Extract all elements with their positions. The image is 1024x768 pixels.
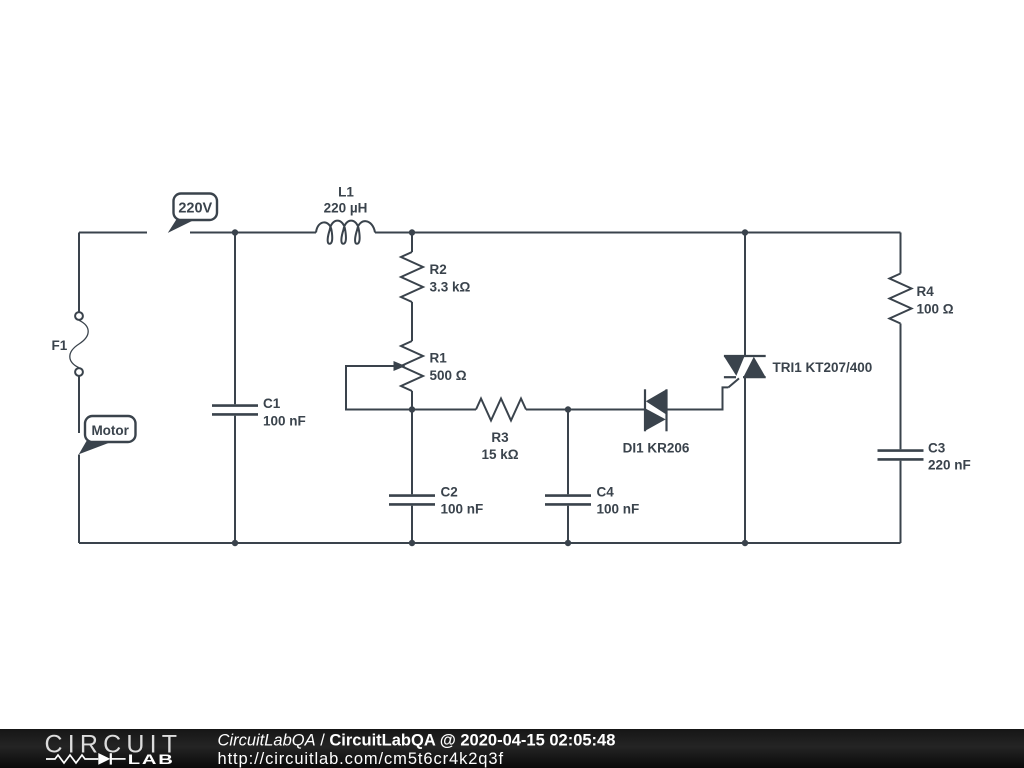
svg-text:Motor: Motor [91,423,129,438]
svg-text:CircuitLabQA / CircuitLabQA @: CircuitLabQA / CircuitLabQA @ 2020-04-15… [218,732,616,750]
svg-text:220 nF: 220 nF [928,458,971,473]
svg-text:R3: R3 [491,430,509,445]
svg-text:TRI1 KT207/400: TRI1 KT207/400 [773,360,873,375]
svg-text:R2: R2 [430,262,447,277]
svg-text:15 kΩ: 15 kΩ [481,447,518,462]
svg-text:DI1 KR206: DI1 KR206 [623,441,690,456]
svg-text:220V: 220V [178,200,212,216]
svg-text:C2: C2 [441,485,458,500]
svg-text:220 µH: 220 µH [324,201,368,216]
svg-text:L1: L1 [338,185,354,200]
svg-text:500 Ω: 500 Ω [430,368,467,383]
svg-text:100 nF: 100 nF [597,502,640,517]
svg-text:100 Ω: 100 Ω [917,302,954,317]
svg-text:100 nF: 100 nF [441,502,484,517]
svg-text:3.3 kΩ: 3.3 kΩ [430,280,471,295]
svg-text:R1: R1 [430,351,448,366]
svg-text:C1: C1 [263,396,281,411]
svg-text:C3: C3 [928,441,946,456]
svg-text:F1: F1 [52,338,68,353]
svg-text:LAB: LAB [128,751,175,767]
svg-text:C4: C4 [597,485,615,500]
svg-text:100 nF: 100 nF [263,414,306,429]
svg-text:http://circuitlab.com/cm5t6cr4: http://circuitlab.com/cm5t6cr4k2q3f [218,750,504,768]
svg-text:R4: R4 [917,284,935,299]
